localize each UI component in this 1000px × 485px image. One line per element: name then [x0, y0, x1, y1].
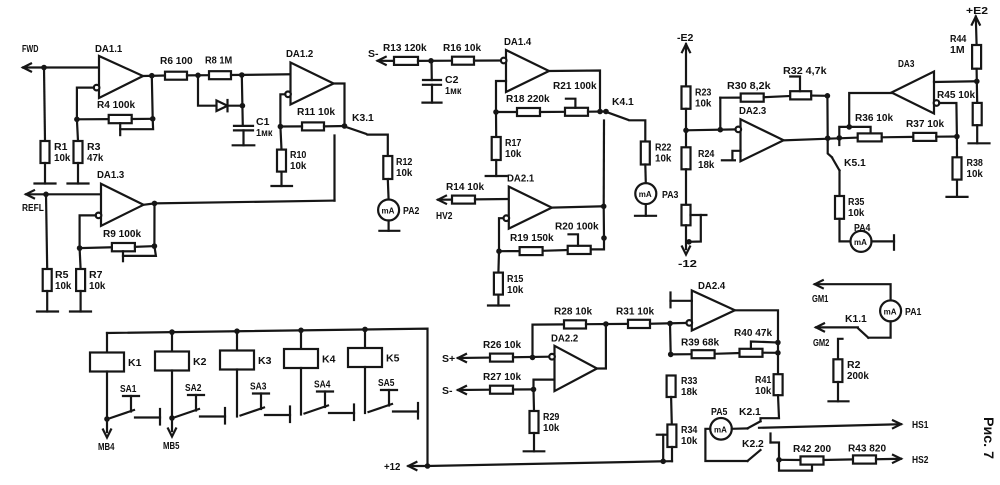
- relay K5: [348, 329, 400, 367]
- wire K4.1 alternate contact to DA2.1 output: [603, 121, 605, 207]
- meter PA3: [635, 183, 678, 204]
- switch K3.1: [342, 112, 374, 134]
- wire DA1.1 inverting loop: [77, 88, 94, 120]
- svg-text:FWD: FWD: [22, 43, 39, 55]
- svg-text:MB5: MB5: [163, 440, 180, 452]
- svg-text:SA5: SA5: [378, 377, 395, 389]
- svg-text:10k: 10k: [681, 435, 698, 447]
- wire R33 to R34: [670, 397, 673, 425]
- wire R14 to DA2.1: [475, 198, 509, 201]
- wire diode branch left drop: [198, 75, 217, 105]
- svg-text:MB4: MB4: [98, 441, 115, 453]
- node FWD input arrow: [22, 43, 39, 72]
- switch SA5 pushbutton: [369, 377, 419, 419]
- resistor R40 trimmer: [734, 327, 778, 357]
- svg-text:K1.1: K1.1: [845, 313, 867, 325]
- node HS2 output arrow: [893, 454, 929, 466]
- switch SA4 pushbutton: [305, 379, 355, 421]
- wire R12 to PA2: [387, 179, 390, 200]
- svg-text:R28 10k: R28 10k: [554, 306, 592, 318]
- resistor R34 trimmer: [657, 424, 698, 461]
- switch SA3 pushbutton: [241, 381, 291, 423]
- svg-text:R31 10k: R31 10k: [616, 306, 654, 318]
- wire K5 to SA5: [364, 367, 366, 413]
- svg-text:R43 820: R43 820: [848, 443, 886, 455]
- junction DA2.2 output/R28: [603, 321, 609, 327]
- wire R18 to R21: [540, 111, 565, 113]
- wire K4.1 to R22: [630, 120, 646, 141]
- svg-text:DA3: DA3: [898, 58, 915, 70]
- resistor R45 trimmer: [937, 81, 982, 125]
- svg-text:DA1.3: DA1.3: [97, 169, 124, 181]
- wire R22 to PA3: [644, 165, 647, 184]
- ground R15: [488, 295, 509, 306]
- svg-text:R11 10k: R11 10k: [297, 106, 335, 118]
- junction bus K4: [298, 328, 304, 334]
- wire DA1.2 inverting input loop: [280, 94, 285, 126]
- svg-text:1мк: 1мк: [445, 85, 462, 97]
- ground R10: [272, 172, 293, 186]
- meter PA1: [880, 300, 921, 321]
- svg-text:SA3: SA3: [250, 381, 267, 393]
- node REFL input arrow: [22, 190, 44, 214]
- resistor R24: [682, 130, 715, 171]
- node -E2 input arrow: [677, 32, 694, 52]
- wire DA3 output: [849, 93, 891, 127]
- wire R6 to R8: [187, 74, 209, 76]
- svg-text:-12: -12: [678, 258, 697, 270]
- svg-text:R8 1M: R8 1M: [205, 55, 232, 67]
- svg-text:R20 100k: R20 100k: [555, 221, 599, 233]
- switch SA2 pushbutton: [176, 382, 226, 424]
- wire DA1.3 output down to R9: [153, 203, 155, 246]
- resistor R20 trimmer: [555, 221, 599, 255]
- svg-text:1M: 1M: [950, 44, 965, 56]
- op-amp DA2.3: [736, 105, 784, 161]
- wire R42 to R43: [824, 458, 854, 461]
- junction R31/R33: [667, 321, 673, 327]
- wire DA3 inverting to feedback node: [939, 103, 957, 137]
- wire S- to R27: [458, 389, 490, 391]
- wire DA2.3 output row: [784, 138, 858, 141]
- wire R8 to DA1.2 input: [231, 73, 291, 76]
- switch K2.2: [742, 438, 764, 461]
- wire R13 to R16: [418, 60, 452, 62]
- svg-text:PA1: PA1: [905, 306, 922, 318]
- resistor R1: [41, 68, 71, 165]
- svg-text:mA: mA: [639, 190, 652, 199]
- junction R42 left: [776, 457, 782, 463]
- svg-text:R32 4,7k: R32 4,7k: [783, 65, 827, 77]
- junction DA1.4 output/R21: [597, 109, 603, 115]
- wire R35 to PA4: [840, 219, 851, 242]
- wire R31 to DA2.4: [650, 322, 689, 325]
- resistor R5: [43, 194, 72, 292]
- wire DA2.1 output down to R20: [591, 206, 604, 249]
- svg-text:mA: mA: [854, 238, 867, 247]
- wire diode to C1 node: [228, 105, 243, 107]
- wire DA2.1 inverting loop: [499, 218, 504, 251]
- resistor R25 trimmer unlabeled: [682, 169, 707, 242]
- ground C1: [233, 130, 255, 145]
- junction R44/R45: [974, 79, 980, 85]
- svg-text:K2.2: K2.2: [742, 438, 764, 450]
- wire PA1 bottom to K1.1: [868, 321, 890, 337]
- svg-text:R9 100k: R9 100k: [103, 228, 141, 240]
- svg-text:R37 10k: R37 10k: [906, 118, 944, 130]
- op-amp DA1.3: [96, 169, 144, 226]
- wire -E2 to R23: [685, 44, 687, 86]
- node S- upper input arrow: [368, 48, 386, 65]
- wire GM2 to K1.1 pole: [816, 326, 858, 328]
- resistor R42 trimmer: [779, 443, 831, 471]
- junction -12 node: [686, 239, 692, 245]
- svg-text:R4 100k: R4 100k: [97, 99, 135, 111]
- svg-text:18k: 18k: [681, 386, 698, 398]
- junction bus K2: [169, 329, 175, 335]
- junction R32 corner: [825, 93, 831, 99]
- svg-text:10k: 10k: [396, 167, 413, 179]
- op-amp DA3 pointing left: [892, 58, 940, 114]
- svg-text:SA2: SA2: [185, 382, 202, 394]
- wire PA4 right terminal: [872, 235, 895, 249]
- meter PA4: [851, 222, 872, 252]
- svg-text:DA2.3: DA2.3: [739, 105, 766, 117]
- svg-text:R39 68k: R39 68k: [681, 337, 719, 349]
- wire DA2.4 noninverting stub: [671, 293, 692, 308]
- resistor R22: [641, 142, 672, 165]
- relay K4: [284, 330, 336, 368]
- junction SA2/MB5: [169, 415, 175, 421]
- ground R29: [524, 433, 545, 451]
- svg-text:K1: K1: [128, 357, 142, 369]
- resistor R29: [530, 389, 560, 434]
- wire K3.1 to R12: [368, 135, 388, 156]
- wire R37 to R38 node: [936, 135, 957, 137]
- svg-text:DA1.1: DA1.1: [95, 43, 122, 55]
- ground R7: [70, 291, 91, 312]
- svg-text:R40 47k: R40 47k: [734, 327, 772, 339]
- svg-text:10k: 10k: [290, 160, 307, 172]
- resistor R26: [483, 339, 521, 362]
- junction R6/R8/diode: [195, 73, 201, 79]
- svg-text:R27 10k: R27 10k: [483, 371, 521, 383]
- capacitor C1: [234, 116, 273, 139]
- node MB4 output arrow: [98, 419, 115, 453]
- junction bus K3: [234, 328, 240, 334]
- wire R39 to R40: [715, 352, 740, 355]
- wire R32 right down to output row: [811, 96, 828, 139]
- resistor R11: [297, 106, 335, 130]
- junction R30 tap: [718, 127, 724, 133]
- resistor R38: [953, 137, 984, 181]
- wire R33 column: [669, 323, 672, 354]
- wire R36 to R37: [882, 136, 914, 139]
- resistor R37: [906, 118, 944, 141]
- relay K3: [220, 331, 272, 369]
- svg-text:GM2: GM2: [813, 337, 830, 349]
- wire R26 to DA2.2: [513, 356, 549, 359]
- wire R30 riser: [720, 98, 740, 130]
- junction R40 right: [775, 350, 781, 356]
- wire R11 right to K3.1 pole: [324, 125, 345, 128]
- resistor R32 trimmer: [783, 65, 827, 99]
- wire DA2.3 inverting stub: [722, 151, 741, 161]
- diode VD1: [217, 100, 228, 111]
- wire DA1.3 output long line to K3.1 contact: [144, 201, 335, 205]
- wire R21 to output node: [588, 110, 606, 112]
- wire S- to R13: [378, 60, 394, 62]
- resistor R15: [494, 251, 524, 296]
- junction DA2.1 output: [601, 204, 607, 210]
- wire R16 to DA1.4: [474, 59, 502, 61]
- wire K2 to SA2: [171, 371, 173, 419]
- resistor R28: [554, 306, 592, 329]
- svg-text:mA: mA: [884, 307, 897, 316]
- svg-text:Рис. 7: Рис. 7: [981, 417, 996, 459]
- svg-text:10k: 10k: [55, 280, 72, 292]
- svg-text:HV2: HV2: [436, 210, 453, 222]
- junction R9 left: [77, 245, 83, 251]
- ground R45: [969, 125, 990, 143]
- node HS1 output arrow: [893, 419, 929, 431]
- junction R18/R17: [493, 109, 499, 115]
- resistor R4 trimmer: [77, 99, 153, 135]
- wire DA1.1 output down to R4: [151, 76, 154, 119]
- node S+ input arrow: [442, 353, 466, 365]
- resistor R19: [499, 232, 554, 255]
- wire K4 to SA4: [300, 368, 302, 415]
- ground PA3: [635, 204, 656, 216]
- relay K1: [90, 333, 142, 372]
- junction +12 bus corner: [425, 463, 431, 469]
- meter PA2: [378, 200, 419, 221]
- svg-text:R36 10k: R36 10k: [855, 112, 893, 124]
- wire DA1.4 inverting loop: [496, 81, 506, 112]
- svg-text:10k: 10k: [89, 280, 106, 292]
- resistor R10: [277, 127, 307, 173]
- wire R27 to junction: [513, 388, 534, 390]
- node -12 output arrow: [678, 225, 697, 270]
- svg-text:SA4: SA4: [314, 379, 331, 391]
- svg-text:R26 10k: R26 10k: [483, 339, 521, 351]
- resistor R44: [950, 17, 981, 69]
- svg-text:S-: S-: [442, 385, 453, 397]
- resistor R41: [755, 374, 783, 397]
- junction R4 right: [150, 116, 156, 122]
- label figure caption: [981, 417, 996, 459]
- svg-text:R42 200: R42 200: [793, 443, 831, 455]
- wire DA2.4 output down to R41: [735, 310, 778, 374]
- switch K5.1: [828, 138, 866, 171]
- junction diode/C1 vertical: [240, 103, 246, 109]
- node HV2 input arrow: [436, 196, 453, 222]
- junction R40 wiper: [775, 340, 781, 346]
- resistor R31: [616, 306, 654, 329]
- wire R44 to junction: [975, 69, 977, 82]
- svg-text:HS1: HS1: [912, 419, 929, 431]
- ground R17: [486, 160, 507, 176]
- svg-text:1мк: 1мк: [256, 127, 273, 139]
- svg-text:10k: 10k: [695, 98, 712, 110]
- wire DA3 noninverting row: [934, 80, 977, 83]
- svg-text:S-: S-: [368, 48, 379, 60]
- svg-text:K3.1: K3.1: [352, 112, 374, 124]
- ground R2: [829, 382, 849, 401]
- junction REFL/R5: [43, 192, 49, 198]
- wire DA1.2 output to K3.1: [334, 84, 345, 127]
- resistor R6: [160, 55, 193, 80]
- resistor R43: [848, 443, 886, 464]
- junction R20 corner: [601, 235, 607, 241]
- junction DA2.3 output/R32: [825, 135, 831, 141]
- wire K3 to SA3: [236, 370, 238, 417]
- resistor R39: [671, 337, 720, 359]
- svg-text:10k: 10k: [507, 284, 524, 296]
- wire R28 to R31: [586, 323, 628, 326]
- svg-text:K4.1: K4.1: [612, 96, 634, 108]
- wire K5.1 to R35: [838, 171, 840, 197]
- junction R4 left: [74, 117, 80, 123]
- svg-text:R21 100k: R21 100k: [553, 80, 597, 92]
- switch SA1 pushbutton: [111, 383, 161, 425]
- junction R11/R10/C-loop: [278, 124, 284, 130]
- resistor R17: [492, 112, 522, 160]
- capacitor C2: [423, 61, 462, 97]
- wire R11 left: [280, 125, 302, 127]
- meter PA5: [710, 406, 732, 440]
- svg-text:K5: K5: [386, 353, 400, 365]
- svg-text:+12: +12: [384, 461, 401, 473]
- svg-text:R16 10k: R16 10k: [443, 42, 481, 54]
- resistor R7: [76, 248, 105, 292]
- svg-text:DA2.2: DA2.2: [551, 333, 578, 345]
- resistor R3: [74, 119, 104, 164]
- ground C2: [423, 85, 442, 103]
- node +12 input arrow: [384, 461, 416, 473]
- svg-text:DA1.2: DA1.2: [286, 48, 313, 60]
- svg-text:DA1.4: DA1.4: [504, 36, 531, 48]
- wire K2.2 contact to R42: [771, 434, 780, 460]
- resistor R33: [667, 375, 698, 398]
- svg-text:10k: 10k: [505, 148, 522, 160]
- svg-text:+E2: +E2: [966, 5, 988, 17]
- resistor R12: [383, 156, 412, 179]
- resistor R9 trimmer: [80, 228, 156, 261]
- resistor R30: [727, 80, 771, 102]
- svg-text:K4: K4: [322, 354, 336, 366]
- resistor R8: [205, 55, 232, 80]
- svg-text:K3: K3: [258, 355, 272, 367]
- junction R9 right: [152, 243, 158, 249]
- wire relay supply bus: [107, 329, 428, 466]
- wire DA2.2 output up: [597, 324, 606, 369]
- resistor R21 trimmer: [553, 80, 597, 116]
- junction C2: [428, 58, 434, 64]
- op-amp DA2.4: [687, 280, 735, 331]
- wire FWD to DA1.1 noninverting input: [23, 66, 99, 68]
- svg-text:PA5: PA5: [711, 406, 728, 418]
- wire R8 node down to C1: [242, 75, 243, 126]
- node S- lower input arrow: [442, 385, 466, 397]
- svg-text:R14 10k: R14 10k: [446, 181, 484, 193]
- svg-text:K2: K2: [193, 356, 207, 368]
- op-amp DA1.4: [501, 36, 549, 92]
- resistor R16: [443, 42, 481, 65]
- ground R1: [35, 163, 56, 184]
- wire GM1 to PA1: [815, 284, 891, 300]
- junction R8/diode/C1: [239, 72, 245, 78]
- wire DA1.1 output: [143, 74, 165, 77]
- wire R30 to R32: [764, 96, 791, 97]
- ground R3: [68, 163, 89, 184]
- wire to DA2.3 noninverting: [686, 128, 736, 131]
- resistor R13: [383, 42, 427, 65]
- junction R39/R33: [668, 352, 674, 358]
- switch K2.1: [739, 406, 761, 428]
- svg-text:R6 100: R6 100: [160, 55, 193, 67]
- wire R27 junction to DA2.2 inverting: [534, 380, 555, 390]
- svg-text:10k: 10k: [54, 152, 71, 164]
- svg-text:-E2: -E2: [677, 32, 694, 44]
- junction R37/R38: [954, 134, 960, 140]
- switch K1.1: [845, 313, 868, 338]
- svg-text:HS2: HS2: [912, 454, 929, 466]
- wire HS1 line: [759, 424, 901, 428]
- wire DA2.1 output: [552, 206, 604, 207]
- wire R28 feedback loop: [533, 324, 565, 357]
- svg-text:10k: 10k: [967, 168, 984, 180]
- resistor R23: [682, 86, 712, 109]
- junction DA3 output tap: [846, 124, 852, 130]
- junction FWD/R1: [41, 65, 47, 71]
- wire DA1.4 output to K4.1: [549, 71, 600, 112]
- svg-text:mA: mA: [382, 207, 395, 216]
- svg-text:10k: 10k: [848, 207, 865, 219]
- svg-text:REFL: REFL: [22, 202, 44, 214]
- wire HV2 to R14: [438, 199, 452, 201]
- svg-text:200k: 200k: [847, 370, 869, 382]
- svg-text:S+: S+: [442, 353, 455, 365]
- wire K5.1 pole up to DA3 output: [839, 127, 870, 138]
- resistor R27: [483, 371, 521, 394]
- svg-text:47k: 47k: [87, 152, 104, 164]
- svg-text:PA3: PA3: [662, 189, 679, 201]
- wire K1 to SA1: [106, 372, 108, 420]
- resistor R14: [446, 181, 484, 204]
- wire R23 to junction: [685, 109, 687, 131]
- junction K5.1 pole: [837, 135, 843, 141]
- svg-text:K5.1: K5.1: [844, 157, 866, 169]
- ground R38: [947, 180, 968, 197]
- svg-text:mA: mA: [714, 425, 727, 434]
- junction R23/R24: [683, 128, 689, 134]
- wire S+ to R26: [458, 357, 490, 360]
- node +E2 input arrow: [966, 5, 988, 25]
- ground PA2: [379, 221, 399, 231]
- junction R19/R15: [496, 248, 502, 254]
- node GM1 output arrow: [812, 280, 829, 305]
- junction R27/R29: [531, 387, 537, 393]
- svg-text:R13 120k: R13 120k: [383, 42, 427, 54]
- relay K2: [155, 332, 207, 370]
- wire REFL to DA1.3: [26, 193, 101, 195]
- svg-text:PA2: PA2: [403, 205, 420, 217]
- svg-text:GM1: GM1: [812, 293, 829, 305]
- svg-text:PA4: PA4: [854, 222, 871, 234]
- wire K3.1 alternate contact from DA1.3: [333, 136, 335, 201]
- svg-text:18k: 18k: [698, 159, 715, 171]
